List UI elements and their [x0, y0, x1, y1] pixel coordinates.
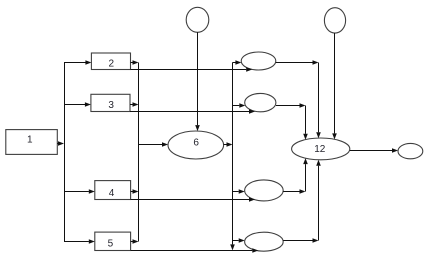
box 3 [91, 94, 130, 111]
wire box4 bottom edge to ellipse C [131, 197, 255, 202]
wire ellipse A to ellipse 12 (elbow down) [276, 60, 321, 138]
wire box5 bottom edge to ellipse D [131, 248, 259, 253]
branch trunk line (left vertical) [64, 63, 66, 242]
wire collector to ellipse 6 [139, 142, 169, 147]
output ellipse E (far right) [398, 143, 423, 158]
svg-text:1: 1 [27, 135, 33, 146]
wire box4 out to collector line [131, 189, 139, 194]
wire ellipse C to ellipse 12 (elbow up) [283, 158, 308, 194]
circle top-left [186, 7, 209, 32]
small ellipse C (right of box 4) [245, 180, 284, 201]
wire box5 out to collector line [131, 239, 139, 244]
wire trunk to ellipse D [233, 238, 245, 243]
svg-text:6: 6 [193, 138, 199, 149]
wire ellipse B to ellipse 12 (elbow down) [276, 103, 308, 140]
wire circle top-right down to ellipse 12 [332, 33, 337, 139]
wire box1 to branch line [57, 141, 64, 146]
wire box2 out to collector line [131, 60, 139, 65]
wire branch to box 4 [64, 189, 95, 194]
wire branch to box 3 [64, 102, 91, 107]
wire ellipse D to ellipse 12 (elbow up) [283, 160, 321, 243]
collector trunk line (second vertical) [138, 63, 140, 242]
box 4 [95, 181, 131, 200]
circle top-right [324, 8, 345, 33]
small ellipse B (right of box 3) [245, 93, 276, 111]
wire ellipse 12 to output ellipse [350, 148, 398, 153]
wire trunk to ellipse A [233, 60, 242, 65]
wire box2 bottom edge to ellipse A [131, 67, 253, 72]
wire box3 out to collector line [130, 102, 139, 107]
wire box3 bottom edge to ellipse B [130, 109, 255, 114]
wire ellipse 6 out to right trunk [224, 142, 233, 147]
svg-text:5: 5 [108, 238, 114, 249]
svg-text:4: 4 [109, 188, 115, 199]
box 2 [91, 53, 130, 70]
wire branch to box 5 [64, 239, 95, 244]
ellipse 6 [168, 131, 224, 159]
wire branch to box 2 [64, 60, 91, 65]
svg-text:3: 3 [108, 100, 114, 111]
down arrow of right trunk onto box5 output line [230, 244, 235, 250]
right trunk line (third vertical) [232, 63, 234, 245]
wire trunk to ellipse B [233, 103, 246, 108]
wire trunk to ellipse C [233, 189, 245, 194]
svg-text:2: 2 [109, 58, 115, 69]
small ellipse D (right of box 5) [245, 232, 284, 251]
ellipse 12 [292, 138, 350, 160]
wire circle top-left down to ellipse 6 [195, 32, 200, 131]
box 5 [95, 232, 131, 250]
box 1 [6, 130, 58, 155]
small ellipse A (right of box 2) [241, 52, 276, 70]
svg-text:12: 12 [314, 144, 326, 155]
